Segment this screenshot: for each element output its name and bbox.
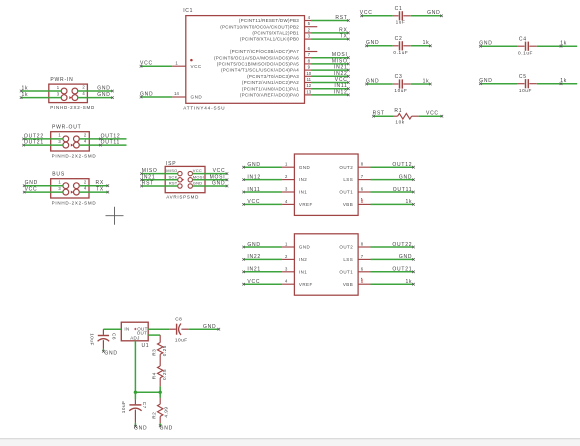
svg-text:RST: RST [335,15,347,21]
net label GND at A4953-2 pin 1 [242,166,245,169]
wire VCC to C1 [362,15,393,17]
wire GND to C2 [367,45,393,47]
svg-text:OUT22: OUT22 [392,242,412,248]
svg-text:(PCINT9/XTAL2)PB1: (PCINT9/XTAL2)PB1 [252,31,299,36]
wire GND to BUS pin 1 [24,185,63,187]
A4953-2 pin 6 [358,191,370,193]
capacitor C5 [517,74,536,93]
net label RX at BUS pin 2 [107,184,110,187]
svg-text:IN1: IN1 [299,190,307,195]
svg-text:PWR-IN: PWR-IN [50,77,73,83]
svg-text:(PCINT3/T0/ADC3)PA3: (PCINT3/T0/ADC3)PA3 [247,74,299,79]
wire IC1 pin 4 to net RST [311,20,348,22]
svg-text:RX: RX [96,180,104,186]
wire OUT22 to PWR-OUT pin 1 [24,138,63,140]
wire A4953-3 pin 6 to OUT21 [371,271,414,273]
svg-text:PWR-OUT: PWR-OUT [52,124,81,130]
wire IC1 pin 3 to net TX [311,38,348,40]
net label VCC at IC1 pin 1 [140,65,143,68]
svg-text:VCC: VCC [213,168,226,174]
svg-text:VCC: VCC [140,61,153,67]
svg-text:GND: GND [366,78,379,84]
svg-text:(PCINT1/AIN0/ADC1)PA1: (PCINT1/AIN0/ADC1)PA1 [242,86,299,91]
net label 1k at PWR-IN pin 1 [20,90,23,93]
sheet origin cross [106,207,124,225]
net label GND at C3 [365,83,368,86]
svg-text:VCC: VCC [360,10,373,16]
svg-text:12: 12 [306,83,311,88]
IC1 pin 11 (PCINT2/AIN1/ADC2)PA2 [242,77,312,85]
net label TX [347,38,350,41]
wire VCC to A4953-3 pin 4 [244,283,283,285]
svg-text:TX: TX [96,187,104,193]
A4953-3 pin 5 [358,283,370,285]
svg-text:VREF: VREF [299,282,313,287]
net label GND at IC1 pin 14 [140,96,143,99]
svg-text:VBB: VBB [343,282,353,287]
svg-text:GND: GND [97,85,110,91]
H-bridge driver A4953 block 2 body [294,154,358,215]
svg-text:IN2: IN2 [299,177,307,182]
wire RST to R1 [374,115,394,117]
wire VCC to A4953-2 pin 4 [244,203,283,205]
connector ISP AVRISPSMD body [165,166,205,192]
svg-text:GND: GND [140,92,153,98]
capacitor C6 10uF [90,329,117,349]
IC1 pin 2 (PCINT9/XTAL2)PB1 [252,27,311,35]
svg-text:IN1: IN1 [299,269,307,274]
A4953-2 pin 7 [358,179,370,181]
wire BUS pin 2 to RX [79,185,108,187]
net label IN21 at ISP [140,179,143,182]
IC1 pin 8 (PCINT5/OC1B/MISO/DO/ADC5)PA5 [217,58,311,66]
capacitor C2 [393,36,411,55]
wire RST to ISP [142,185,178,187]
resistor R4 0.25 [151,366,167,386]
net label MISO [347,63,350,66]
svg-text:1k: 1k [22,85,29,91]
svg-text:1k: 1k [406,279,413,285]
svg-text:C6: C6 [112,333,117,340]
capacitor C1 [393,6,411,25]
net label OUT12 at A4953-2 pin 8 [412,166,415,169]
wire R1 to VCC [419,115,442,117]
wire GND to C4 [480,45,517,47]
wire GND to C5 [480,83,517,85]
net label RST at R1 [372,115,375,118]
net label TX at BUS pin 4 [107,191,110,194]
svg-text:RST: RST [142,181,154,187]
microcontroller IC1 ATTINY44-SSU body [186,16,305,104]
net label GND at C5 [479,82,482,85]
net label VCC at C1 [360,15,363,18]
A4953-2 pin 3 [282,191,294,193]
svg-text:IN21: IN21 [142,174,156,180]
A4953-3 pin 4 [282,283,294,285]
A4953-3 pin 2 [282,258,294,260]
resistor R1 10k [393,108,419,125]
net label IN22 [347,75,350,78]
net label GND at A4953-2 pin 7 [412,178,415,181]
A4953-2 pin 5 [358,203,370,205]
net label 1k at PWR-IN pin 3 [20,96,23,99]
svg-text:LSS: LSS [343,257,353,262]
svg-text:VCC: VCC [247,199,260,205]
net label GND at PWR-IN pin 4 [111,96,114,99]
svg-text:GND: GND [399,254,412,260]
svg-text:VCC: VCC [335,77,348,83]
svg-text:GND: GND [212,181,225,187]
wire PWR-OUT pin 4 to OUT11 [79,144,126,146]
svg-text:1k: 1k [22,92,29,98]
wire U1 OUT to C8 [148,328,170,330]
net label IN21 [347,69,350,72]
IC1 pin 1 [172,65,186,67]
wire IC1 pin 12 to net IN11 [311,88,348,90]
svg-text:1k: 1k [560,41,567,47]
net label GND at ISP [226,185,229,188]
svg-text:TX: TX [340,34,348,40]
svg-text:11: 11 [307,77,312,82]
wire IC1 pin 2 to net RX [311,32,348,34]
svg-text:10uF: 10uF [394,88,407,93]
wire A4953-3 pin 5 to 1k [371,283,414,285]
svg-text:MOSI: MOSI [332,52,348,58]
svg-text:1uF: 1uF [396,20,406,25]
wire PWR-IN pin 4 to GND [78,97,113,99]
voltage regulator U1 body [121,322,148,341]
wire IC1 pin 7 to net MOSI [311,57,348,59]
svg-text:VBB: VBB [343,202,353,207]
net label GND at BUS pin 1 [23,184,26,187]
wire A4953-3 pin 8 to OUT22 [371,246,414,248]
svg-text:10: 10 [306,71,311,76]
svg-text:(PCINT7/ICP/OC0B/ADC7)PA7: (PCINT7/ICP/OC0B/ADC7)PA7 [230,49,299,54]
svg-text:GND: GND [247,162,260,168]
wire IN21 to ISP SCK [142,179,178,181]
svg-text:0.25: 0.25 [162,369,167,380]
wire C6 to U1 IN [103,328,121,330]
svg-text:GND: GND [25,180,38,186]
svg-text:GND: GND [399,174,412,180]
svg-text:10uF: 10uF [121,401,126,414]
svg-text:1k: 1k [423,40,430,46]
svg-text:PINHD-2X2-SMD: PINHD-2X2-SMD [52,154,97,159]
svg-text:ISP: ISP [166,161,176,167]
svg-text:PINHD-2X2-SMD: PINHD-2X2-SMD [52,201,97,206]
IC1 pin 12 (PCINT1/AIN0/ADC1)PA1 [242,83,312,91]
svg-text:GND: GND [203,324,216,330]
svg-text:GND: GND [97,92,110,98]
net label MOSI at ISP [226,179,229,182]
wire C4 to 1k [537,45,577,47]
svg-text:10k: 10k [395,120,404,125]
wire BUS pin 4 to TX [79,191,108,193]
svg-text:RST: RST [169,181,178,186]
wire OUT21 to PWR-OUT pin 3 [24,144,63,146]
wire GND to IC1 pin 14 [141,96,172,98]
svg-text:VCC: VCC [25,187,38,193]
wire ISP to MOSI [193,179,228,181]
svg-text:LSS: LSS [343,177,353,182]
svg-text:OUT2: OUT2 [339,245,353,250]
net label GND at C1 [440,15,443,18]
svg-text:IN12: IN12 [247,174,261,180]
wire IC1 pin 13 to net IN12 [311,94,348,96]
svg-text:IN21: IN21 [247,267,261,273]
svg-text:GND: GND [366,40,379,46]
svg-text:R4: R4 [151,372,156,379]
svg-text:GND: GND [134,425,147,431]
IC1 pin 6 (PCINT7/ICP/OC0B/ADC7)PA7 [230,46,317,54]
net label GND at PWR-IN pin 2 [111,90,114,93]
H-bridge driver A4953 block 3 body [294,234,358,295]
junction dot at ADJ node [134,391,137,394]
net label 1k at C4 [560,45,563,48]
svg-text:VCC: VCC [247,279,260,285]
wire GND to A4953-2 pin 1 [244,166,283,168]
wire GND to C3 [367,83,393,85]
svg-text:RST: RST [373,111,385,117]
net label VCC at ISP [226,172,229,175]
wire U1 OUT2 to R3 [148,334,160,336]
svg-text:MISO: MISO [142,168,158,174]
net label MISO at ISP [140,172,143,175]
svg-text:GND: GND [104,351,117,357]
wire ISP to VCC [193,173,228,175]
wire MISO to ISP [142,173,178,175]
A4953-3 pin 7 [358,258,370,260]
wire PWR-IN pin 2 to GND [78,90,113,92]
capacitor C3 [393,74,411,93]
capacitor C4 [517,36,536,55]
A4953-2 pin 2 [282,179,294,181]
net label GND at C2 [365,45,368,48]
net label IN11 at A4953-2 pin 3 [242,191,245,194]
net label VCC at BUS pin 3 [23,191,26,194]
svg-text:GND: GND [247,242,260,248]
wire IC1 pin 11 to net VCC [311,82,348,84]
svg-text:R3: R3 [151,349,156,356]
IC1 pin 5 (PCINT10/INT0/OC0A/CKOUT)PB2 [220,21,317,29]
svg-text:OUT1: OUT1 [339,190,353,195]
net label OUT11 at A4953-2 pin 6 [412,191,415,194]
net label 1k at A4953-3 pin 5 [412,283,415,286]
svg-text:VCC: VCC [426,111,439,117]
wire GND to A4953-3 pin 1 [244,246,283,248]
A4953-3 pin 6 [358,271,370,273]
svg-text:OUT12: OUT12 [101,133,121,139]
IC1 pin 14 [172,96,186,98]
net label 1k at C2 [429,45,432,48]
svg-text:(PCINT6/OC1A/SDA/MOSI/ADC6)PA6: (PCINT6/OC1A/SDA/MOSI/ADC6)PA6 [214,55,299,60]
wire C5 to 1k [537,83,577,85]
svg-text:C1: C1 [395,6,403,12]
IC1 pin 10 (PCINT3/T0/ADC3)PA3 [247,71,312,79]
wire ISP to GND [193,185,228,187]
net label RST [347,19,350,22]
svg-text:OUT2: OUT2 [339,165,353,170]
A4953-3 pin 1 [282,246,294,248]
svg-text:OUT1: OUT1 [339,269,353,274]
wire C3 to 1k [411,83,431,85]
bottom frame line [0,439,580,446]
wire R4 to junction [159,386,161,392]
wire C7 to GND [134,423,136,426]
resistor R3 0.25 [151,335,167,366]
wire U1 ADJ down to junction [134,341,136,393]
svg-text:GND: GND [479,41,492,47]
svg-text:IN12: IN12 [334,89,348,95]
svg-text:IC1: IC1 [183,8,193,14]
wire IN12 to A4953-2 pin 2 [244,179,283,181]
svg-text:IN22: IN22 [247,254,261,260]
wire A4953-3 pin 7 to GND [371,258,414,260]
net label 1k at C3 [429,83,432,86]
wire R2 to GND [159,423,161,426]
svg-text:GND: GND [160,425,173,431]
wire IC1 pin 9 to net IN21 [311,69,348,71]
svg-text:IN21: IN21 [334,65,348,71]
svg-text:C4: C4 [519,36,527,42]
svg-text:SCK: SCK [169,174,178,179]
svg-text:10uF: 10uF [90,333,95,346]
net label VCC at R1 [441,115,444,118]
wire IN11 to A4953-2 pin 3 [244,191,283,193]
svg-text:OUT: OUT [137,330,148,335]
wire junction to C7 [134,392,136,399]
net label VCC at A4953-3 pin 4 [242,283,245,286]
wire A4953-2 pin 5 to 1k [371,203,414,205]
svg-text:OUT12: OUT12 [392,162,412,168]
wire IN21 to A4953-3 pin 3 [244,271,283,273]
wire VCC to IC1 pin 1 [141,65,172,67]
svg-text:GND: GND [193,181,203,186]
svg-text:C7: C7 [142,402,147,409]
connector PWR-OUT body [51,132,90,151]
svg-text:OUT21: OUT21 [24,140,44,146]
wire IC1 pin 8 to net MISO [311,63,348,65]
svg-text:OUT22: OUT22 [24,133,44,139]
junction dot at divider node [159,391,162,394]
net label VCC at A4953-2 pin 4 [242,203,245,206]
capacitor C8 10uF [170,317,189,343]
net label GND at C8 [218,328,221,331]
svg-text:PINHD-2X2-SMD: PINHD-2X2-SMD [50,105,95,110]
A4953-3 pin 3 [282,271,294,273]
resistor R2 4.99 [151,398,168,423]
svg-text:VCC: VCC [193,168,202,173]
svg-text:MISO: MISO [332,58,348,64]
svg-text:GND: GND [427,10,440,16]
A4953-2 pin 1 [282,166,294,168]
capacitor C7 10uF [121,399,147,423]
svg-text:ADJ: ADJ [130,336,140,341]
svg-text:IN11: IN11 [334,83,347,89]
net label RST at ISP [140,185,143,188]
net label GND at A4953-3 pin 1 [242,246,245,249]
wire C6 to GND [102,349,104,352]
net label IN12 [347,94,350,97]
wire A4953-2 pin 8 to OUT12 [371,166,414,168]
A4953-3 pin 8 [358,246,370,248]
net label OUT21 at A4953-3 pin 6 [412,271,415,274]
wire 1k to PWR-IN pin 1 [21,90,61,92]
svg-text:(PCINT5/OC1B/MISO/DO/ADC5)PA5: (PCINT5/OC1B/MISO/DO/ADC5)PA5 [217,62,299,67]
svg-text:13: 13 [306,89,311,94]
net label OUT11 at PWR-OUT pin 4 [99,144,102,147]
wire C2 to 1k [411,45,431,47]
svg-text:GND: GND [299,245,311,250]
svg-text:IN2: IN2 [299,257,307,262]
net label GND at C4 [479,45,482,48]
connector BUS body [51,179,89,198]
net label GND at C6 [102,350,105,353]
svg-text:14: 14 [174,91,179,96]
svg-text:10uF: 10uF [519,88,532,93]
svg-text:IN22: IN22 [334,71,348,77]
svg-text:MISO: MISO [166,168,177,173]
svg-text:C5: C5 [519,74,527,80]
svg-text:(PCINT2/AIN1/ADC2)PA2: (PCINT2/AIN1/ADC2)PA2 [242,80,299,85]
connector PWR-IN body [49,84,88,103]
IC1 pin 3 (PCINT8/XTAL1/CLKI)PB0 [240,34,311,42]
net label IN12 at A4953-2 pin 2 [242,178,245,181]
wire PWR-OUT pin 2 to OUT12 [79,138,126,140]
svg-text:MOSI: MOSI [193,174,204,179]
wire junction to R2 [159,392,161,398]
net label 1k at C5 [560,82,563,85]
net label IN21 at A4953-3 pin 3 [242,271,245,274]
svg-text:1k: 1k [406,199,413,205]
svg-text:0.1uF: 0.1uF [518,50,533,55]
svg-text:4.99: 4.99 [164,406,169,417]
svg-text:(PCINT8/XTAL1/CLKI)PB0: (PCINT8/XTAL1/CLKI)PB0 [240,37,299,42]
wire A4953-2 pin 7 to GND [371,179,414,181]
IC1 pin 7 (PCINT6/OC1A/SDA/MOSI/ADC6)PA6 [214,52,311,60]
IC1 pin 9 (PCINT4/T1/SCL/USCK/ADC4)PA4 [221,65,311,73]
wire C1 to GND [411,15,442,17]
svg-text:C8: C8 [175,317,182,322]
wire C8 to GND [189,328,219,330]
svg-text:RX: RX [339,27,347,33]
svg-text:ATTINY44-SSU: ATTINY44-SSU [183,106,225,111]
net label 1k at A4953-2 pin 5 [412,203,415,206]
svg-text:10uF: 10uF [175,338,188,343]
svg-text:OUT21: OUT21 [392,267,412,273]
svg-text:(PCINT11/RESET/DW)PB3: (PCINT11/RESET/DW)PB3 [239,18,299,23]
wire VCC to BUS pin 3 [24,191,63,193]
svg-text:GND: GND [299,165,311,170]
svg-text:VREF: VREF [299,202,313,207]
wire IN22 to A4953-3 pin 2 [244,258,283,260]
net label VCC [347,81,350,84]
svg-text:0.1uF: 0.1uF [393,50,408,55]
IC1 pin 13 (PCINT0/AREF/ADC0)PA0 [240,89,312,97]
svg-text:MOSI: MOSI [210,174,226,180]
svg-text:(PCINT4/T1/SCL/USCK/ADC4)PA4: (PCINT4/T1/SCL/USCK/ADC4)PA4 [221,68,299,73]
svg-text:GND: GND [191,95,203,100]
net label OUT22 at A4953-3 pin 8 [412,246,415,249]
net label GND at A4953-3 pin 7 [412,258,415,261]
wire junction horizontal [135,391,160,393]
wire A4953-2 pin 6 to OUT11 [371,191,414,193]
wire 1k to PWR-IN pin 3 [21,97,61,99]
net label OUT22 at PWR-OUT pin 1 [22,138,25,141]
svg-text:IN: IN [124,326,129,331]
net label OUT21 at PWR-OUT pin 3 [22,144,25,147]
A4953-2 pin 8 [358,166,370,168]
